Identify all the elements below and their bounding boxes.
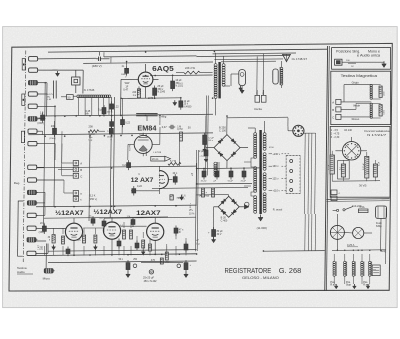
- indicator circle 25+25: [149, 270, 153, 274]
- posizione component: [335, 59, 342, 65]
- head coil upper: [370, 84, 372, 86]
- cap mid: [102, 221, 106, 226]
- box 470: [372, 265, 380, 276]
- vertical bus pair mid: [110, 97, 111, 218]
- connector J6 (shielded): [28, 117, 37, 121]
- voltage selector: [293, 125, 304, 136]
- speaker wires: [225, 67, 239, 69]
- cap input 2uF: [204, 150, 208, 156]
- dash-dot shield boundary line: [23, 51, 26, 263]
- connector Micro (shielded): [44, 269, 53, 273]
- filter caps row: [202, 171, 206, 177]
- label 0.22 a: [110, 104, 114, 109]
- connector J4: [28, 92, 37, 96]
- resistor under V2: [142, 240, 145, 248]
- ext speaker EP: [273, 69, 278, 84]
- cap 0.22 em: [127, 163, 131, 168]
- selector drop wires: [303, 133, 306, 214]
- cap 0.22 a2: [110, 122, 114, 127]
- resistor 250 under V2: [165, 252, 168, 260]
- resistor 3.3K: [82, 235, 85, 243]
- rail 218 grid: [44, 217, 168, 218]
- box Commutatore: [330, 126, 390, 197]
- lower-left rail 136: [28, 133, 213, 135]
- indicator box arrow: [151, 156, 165, 161]
- motor wires: [336, 214, 338, 225]
- wire screen rail: [150, 74, 213, 77]
- connector J11 (shielded): [27, 190, 36, 194]
- cathode bypass 25uF 350v N1043: [153, 88, 157, 95]
- tube V1b: [103, 222, 120, 239]
- head wires: [341, 101, 371, 103]
- transformer ground: [260, 215, 262, 219]
- horn triangle: [283, 54, 291, 61]
- rotary switch: [342, 142, 360, 160]
- ground arrow near conn2: [52, 69, 57, 71]
- connector J13: [27, 213, 36, 217]
- long rail 167.8: [37, 166, 197, 168]
- mains switch: [337, 209, 339, 211]
- cap block 1: [330, 155, 334, 174]
- tube 6AQ5: [138, 72, 153, 87]
- res V1b left cap: [91, 219, 95, 224]
- tap terminal dashed box: [286, 156, 300, 194]
- conn wire stubs: [37, 118, 46, 120]
- wire drops tube row: [43, 246, 45, 255]
- vertical em84 to rail: [159, 116, 161, 125]
- rail 188: [152, 187, 248, 188]
- connector J5: [28, 104, 37, 108]
- coil taps down: [78, 98, 80, 116]
- box motor divider: [327, 198, 390, 201]
- trimmer C taratura: [136, 113, 157, 115]
- wire 470 link: [141, 262, 183, 264]
- mains transformer secondary segments: [263, 133, 266, 136]
- wire conn2 run: [38, 69, 83, 71]
- commutatore wires: [331, 151, 333, 155]
- connector J8: [28, 141, 37, 145]
- crystal box G: [72, 77, 80, 85]
- ground rail bottom: [28, 253, 325, 256]
- more caps row tubes: [117, 241, 121, 246]
- fuse 3.5A: [358, 209, 368, 213]
- caps bottom rail: [184, 244, 188, 250]
- connector J9: [28, 165, 37, 169]
- cap block 4: [373, 164, 377, 177]
- ground arrow 800uF: [213, 237, 215, 240]
- wire conn5 run: [38, 105, 55, 107]
- taps labels: [269, 153, 272, 155]
- cap 2.2uF 250v: [203, 135, 207, 145]
- ext speaker coil: [280, 67, 283, 70]
- coupling cap 2uF top: [96, 58, 98, 60]
- vertical bus left A: [44, 83, 46, 229]
- jack sleeve symbol mid: [22, 94, 25, 105]
- motor sel circle: [353, 227, 364, 238]
- terminal block DE: [73, 191, 78, 196]
- gnd V2: [142, 250, 144, 253]
- motor cap 800uF: [212, 230, 216, 237]
- preamp wires row: [28, 254, 197, 256]
- vertical B+ line: [195, 163, 198, 206]
- resistor 33n: [52, 235, 55, 243]
- shield bracket Testina Audio group: [18, 201, 24, 256]
- cap block 2: [338, 161, 350, 180]
- connector J1: [29, 57, 38, 61]
- motor gnd arrows: [335, 284, 337, 287]
- resistor 6.2M zigzag: [88, 130, 99, 133]
- rail 251: [48, 250, 197, 252]
- bridge B250 top wire: [226, 116, 228, 135]
- ground 750: [181, 195, 183, 198]
- connector J7: [28, 129, 37, 133]
- label 5.7M wire: [159, 165, 166, 167]
- schematic border frame: [9, 43, 392, 291]
- wire 1.5 cap to conn3: [38, 82, 47, 84]
- resistor 5.7M: [168, 163, 181, 166]
- junction dots rails: [44, 82, 46, 84]
- B+ rail lower: [197, 182, 252, 185]
- jack sleeve symbol top: [22, 59, 25, 70]
- grid resistor 20K: [42, 226, 46, 231]
- motor windings row: [333, 261, 336, 264]
- wires right nest: [285, 54, 287, 61]
- wire rail 480V: [38, 57, 96, 60]
- gnd V1a: [53, 245, 55, 248]
- wire micro vertical: [45, 244, 47, 269]
- comm bottom comps: [331, 190, 337, 195]
- cap block 3: [365, 156, 369, 178]
- cap 13400: [109, 128, 113, 134]
- em84 wires: [152, 143, 160, 145]
- arrows to output: [240, 86, 242, 89]
- wire top rail HT: [48, 49, 327, 52]
- vertical em84 grid wire: [121, 98, 123, 134]
- mid rail: [40, 114, 213, 116]
- screen cap 16uF 350v N1021: [171, 81, 175, 89]
- selector drops to rail: [304, 214, 306, 251]
- bridge rectifier B250: [214, 135, 240, 161]
- tube 12AX7 upper half: [159, 171, 168, 189]
- ground arrow mid: [174, 100, 176, 103]
- label 0.22 b: [121, 120, 125, 125]
- box Posizione Sing: [332, 48, 391, 70]
- res under V2 b: [149, 244, 152, 251]
- bottom second rail: [48, 261, 197, 263]
- motor M: [330, 225, 344, 239]
- rail 207: [36, 205, 197, 207]
- comp cluster right of EM84: [202, 188, 205, 197]
- res cluster V1a right: [62, 236, 65, 244]
- vertical bus left B: [54, 116, 55, 207]
- filter choke: [214, 162, 217, 165]
- vertical bus left C: [89, 136, 90, 221]
- mains transformer primary segments: [254, 133, 257, 136]
- mains transformer core: [259, 130, 261, 214]
- bridge rectifier B30: [218, 196, 239, 217]
- cathode resistor 220 1w: [137, 89, 140, 98]
- head coil lower: [370, 103, 372, 105]
- head terminals ABC: [336, 99, 341, 104]
- cap 1.5 (150): [41, 115, 45, 120]
- speaker SP1: [239, 70, 246, 86]
- right panel divider: [325, 46, 328, 291]
- right panel rail dots: [337, 250, 338, 251]
- wire tops tube row: [53, 228, 55, 234]
- B+ bus pair right: [205, 96, 208, 176]
- coupling cap 20n: [173, 177, 177, 183]
- grid lines tubes: [64, 227, 66, 229]
- wire grid left: [121, 78, 133, 80]
- label 750 bis: [160, 258, 163, 264]
- terminal block ABC: [73, 161, 78, 166]
- small sel circle: [245, 202, 249, 206]
- connector J12 (shielded): [27, 201, 36, 205]
- electrolytic bottom left: [126, 263, 130, 270]
- grid stopper cap 18000: [125, 68, 129, 73]
- tube V1a: [65, 223, 82, 240]
- connector J10: [28, 178, 37, 182]
- connector J2: [29, 68, 38, 72]
- trim box 50: [67, 95, 74, 100]
- connector J15 (shielded): [27, 238, 36, 242]
- tube V2: [147, 223, 164, 240]
- output transformer T1: [214, 64, 217, 67]
- gnd V1b: [94, 245, 96, 248]
- connector J14: [27, 226, 36, 230]
- scan noise overlay: [0, 0, 1, 1]
- output jack pins: [255, 95, 260, 102]
- +B vertical pair: [195, 150, 196, 251]
- box Testina Magnetica: [331, 71, 391, 124]
- cap 5uF (50v): [102, 108, 106, 115]
- cap 12uF 25v N4930: [179, 101, 183, 107]
- electrolytic bottom right: [184, 263, 188, 270]
- resistor cluster between V1b V2: [123, 230, 126, 239]
- connector J16: [27, 251, 36, 255]
- comp B.175: [53, 81, 55, 99]
- arrow posizione: [383, 61, 385, 64]
- bottom rail to panel: [263, 250, 324, 253]
- vert 1M down: [178, 141, 180, 166]
- wire rail 63: [83, 62, 213, 63]
- B+ rail upper: [197, 167, 260, 170]
- wire rail 56.9: [104, 56, 197, 57]
- connector J3 (shielded): [28, 81, 37, 85]
- panel right rail: [385, 208, 388, 264]
- resistor 750: [170, 195, 173, 200]
- wire cathode rail: [121, 97, 181, 100]
- rail 194.9: [197, 194, 229, 196]
- fuse holder: [376, 206, 387, 218]
- wire nest top right: [213, 52, 296, 55]
- comp right of V2: [174, 228, 178, 233]
- ground arrow speaker: [241, 88, 243, 91]
- wire conn4 run: [38, 93, 47, 95]
- cap 0.47 em: [169, 126, 171, 128]
- jack sleeve symbol low: [21, 131, 24, 142]
- tube EM84: [134, 135, 152, 153]
- selector feed wire: [287, 118, 289, 127]
- resistor row mid a: [94, 235, 97, 243]
